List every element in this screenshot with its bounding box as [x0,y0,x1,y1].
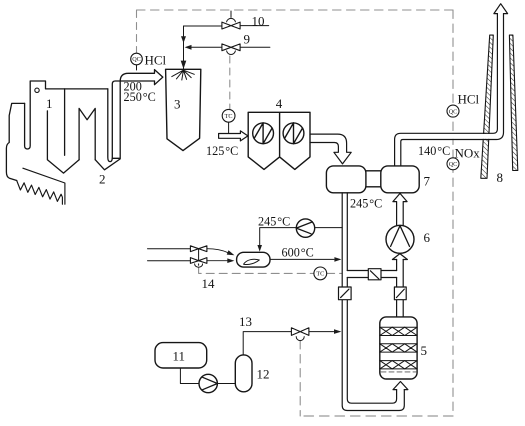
sensor TC2 circle [314,267,327,280]
boiler 1 grate zigzag [17,181,63,205]
svg-text:QC: QC [132,56,141,63]
valve 14 actuator [195,264,203,267]
svg-text:12: 12 [257,367,270,382]
wire tank to pump [180,368,199,384]
wire branch bypass walls [347,271,396,278]
vessel 12 [235,355,252,392]
damper right [394,287,406,300]
pump 245C line [260,228,343,246]
arrow fan to GGH [393,193,407,225]
arrow into reactor bottom [393,382,408,390]
economizer 2 hopper V [95,159,120,170]
svg-text:TC: TC [316,271,324,278]
svg-text:125 °C: 125 °C [206,144,238,158]
svg-text:9: 9 [244,32,251,47]
svg-text:13: 13 [239,314,252,329]
wire dashed valve14 to TC2 [199,268,315,273]
svg-text:TC: TC [225,113,233,120]
line 600C to pipe [270,258,334,260]
svg-text:HCl: HCl [458,92,480,107]
pump 245C [296,219,314,237]
svg-text:QC: QC [449,161,458,168]
wire dashed QC1 to top [136,10,138,54]
stack 8 right wall [509,35,517,170]
wire dashed TC2 to pipe [327,272,342,274]
valve 10 feed line [184,25,269,27]
pipe GGH down main left wall [342,193,404,411]
pipe T vertical left wall [396,260,398,317]
valve 9 [222,44,240,51]
svg-text:11: 11 [173,349,186,364]
wire dashed control line bottom [300,415,453,417]
valve 9 actuator [227,51,236,55]
wire line 13 [243,332,333,355]
svg-text:4: 4 [276,96,283,111]
sensor QC2 circle [447,105,459,117]
catalyst layer 1 [380,327,417,335]
arrow into spray dryer [181,61,187,69]
sensor QC3 circle [447,158,459,170]
arrow stack top [494,4,508,14]
spray nozzle [172,70,195,80]
catalyst layer 2 [380,344,417,352]
wire dashed valve9 to TC1 [229,56,231,110]
burner 14 vessel [237,252,270,267]
svg-text:5: 5 [421,343,428,358]
svg-text:3: 3 [174,97,181,112]
sensor TC1 circle [222,109,235,122]
svg-text:7: 7 [424,174,431,189]
wire dashed control line right [452,10,454,416]
wire pump to vessel 12 [217,383,235,385]
boiler 1 pass divider with hopper V [47,111,79,173]
valve 14 lower [190,258,207,264]
catalyst layer 3 [380,361,417,369]
svg-text:250 °C: 250 °C [124,90,156,104]
arrow on spray feed [181,36,186,43]
valve 9 feed line [191,46,270,48]
sensor TC1 stem [228,122,230,133]
arrow lower into burner [227,258,234,263]
fan 6 [386,225,414,253]
svg-text:14: 14 [202,276,216,291]
reactor bottom dashed [381,371,416,373]
pipe T vertical right wall [402,260,404,317]
sensor QC1 circle [131,53,143,65]
pump 11 [199,374,217,392]
wire dashed valve13 drop [299,341,301,417]
duct 125C into dust collector [219,131,248,141]
valve 9 arrow into spray line [185,45,192,50]
arrow into fan 6 [392,254,407,260]
svg-text:6: 6 [424,230,431,245]
svg-text:HCl: HCl [145,53,167,68]
wire dashed control line top [137,9,454,11]
GGH 7 right box [381,166,419,193]
svg-text:NOx: NOx [455,146,481,161]
GGH 7 connector [366,171,381,187]
damper left [339,287,352,300]
duct dust collector to GGH [310,134,351,164]
arrow 600C into pipe [334,257,341,262]
svg-text:QC: QC [449,108,458,115]
valve 13 [291,328,309,336]
boiler 1 drum circle [35,88,39,92]
boiler 1 left channel [25,81,108,149]
boiler 1 furnace outline [6,103,24,180]
GGH 7 left box [326,166,366,193]
wire valve14 upper to burner [207,249,228,253]
svg-text:245 °C: 245 °C [258,215,290,229]
dust collector 4 shell [248,112,310,169]
svg-text:245 °C: 245 °C [350,197,382,211]
SCR reactor 5 [380,317,417,379]
pipe GGH down main right wall [347,193,396,403]
svg-text:600 °C: 600 °C [282,246,314,260]
valve 13 actuator [296,337,304,341]
arrow into burner top [257,245,262,252]
svg-text:10: 10 [252,14,265,29]
svg-text:8: 8 [497,170,504,185]
tank 11 [155,343,207,368]
boiler 1 tube bundle M [79,108,95,159]
arrow 13 into pipe [334,329,341,334]
dust collector fan left [253,123,274,144]
wire spray feed vertical [183,26,185,69]
arrow upper into burner [227,250,235,255]
damper middle [368,269,381,280]
dust collector fan right [283,123,304,144]
svg-text:1: 1 [46,96,53,111]
svg-text:2: 2 [99,172,106,187]
stack 8 left wall [481,35,494,178]
valve 14 feed lines [148,249,199,261]
pipe GGH to stack [398,14,501,164]
svg-text:140 °C: 140 °C [418,144,450,158]
sensor QC1 stem [136,65,138,71]
duct boiler to spray dryer [112,70,163,159]
boiler 1 right wall and U-bend [108,81,155,162]
wire valve14 lower to burner [207,260,227,262]
burner flame [244,259,260,264]
spray dryer 3 [166,69,201,150]
boiler 1 grate slope [23,168,65,204]
valve 10 actuator [227,11,236,22]
valve 10 [222,22,240,29]
boiler 1 second divider [64,89,66,155]
valve 14 upper [190,246,207,252]
